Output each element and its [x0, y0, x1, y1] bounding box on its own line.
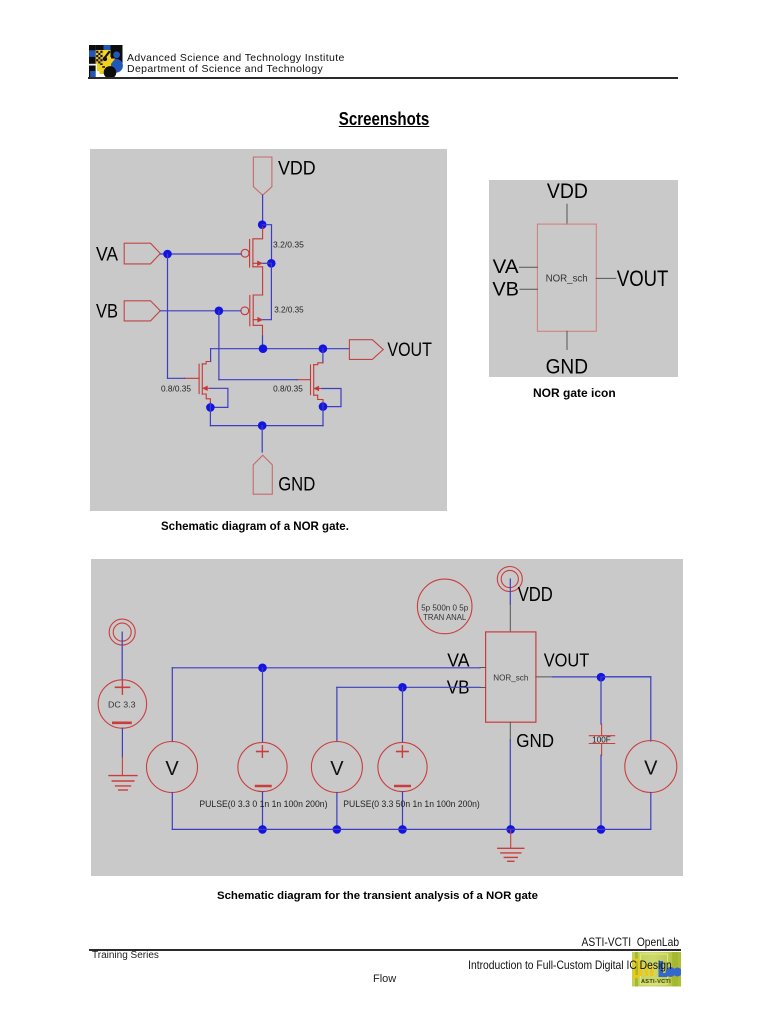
ground symbol left	[109, 757, 137, 790]
wire VDD to M1 drain	[262, 195, 264, 225]
wire VA down	[167, 254, 169, 378]
wire VB down	[218, 311, 220, 380]
svg-text:VOUT: VOUT	[387, 340, 432, 361]
svg-text:VA: VA	[96, 245, 118, 266]
global VDD symbol top (double circle)	[497, 567, 522, 592]
svg-text:VB: VB	[96, 302, 118, 323]
GND pin wire	[566, 331, 568, 349]
wire M4 bulk loop	[322, 389, 341, 407]
wire V1 to rail	[171, 793, 173, 830]
node V2 rail dot	[333, 825, 342, 834]
wire M3 bulk loop	[210, 388, 228, 407]
svg-text:GND: GND	[546, 355, 588, 378]
node out dot left	[259, 344, 268, 353]
pin stub VOUT	[536, 676, 553, 678]
meter V2	[311, 742, 362, 793]
svg-text:3.2/0.35: 3.2/0.35	[273, 240, 304, 250]
svg-text:ASTI-VCTI: ASTI-VCTI	[641, 979, 671, 985]
ground symbol bottom	[498, 829, 524, 861]
svg-text:5p 500n 0 5p: 5p 500n 0 5p	[421, 603, 468, 613]
svg-text:PULSE(0 3.3 50n 1n 1n 100n 200: PULSE(0 3.3 50n 1n 1n 100n 200n)	[343, 799, 480, 809]
svg-text:VOUT: VOUT	[544, 650, 590, 670]
transistor M2 pmos	[241, 295, 263, 336]
NOR_sch instance box	[486, 632, 536, 722]
node pulse1 rail dot	[258, 825, 267, 834]
svg-text:0.8/0.35: 0.8/0.35	[161, 384, 191, 394]
svg-text:V: V	[330, 758, 344, 780]
wire to GND pin	[261, 426, 263, 452]
svg-text:VDD: VDD	[278, 159, 316, 180]
wire VOUT net	[553, 676, 651, 678]
svg-text:GND: GND	[278, 475, 315, 496]
wire M3 gate	[168, 377, 185, 379]
node VOUT-cap dot	[597, 673, 606, 682]
VOUT pin	[349, 340, 383, 360]
wire V2 to rail	[336, 793, 338, 830]
pin stub GND	[509, 722, 511, 740]
VB pin	[124, 301, 160, 321]
source V0 DC 3.3	[98, 680, 146, 728]
svg-text:3.2/0.35: 3.2/0.35	[274, 305, 304, 315]
node M3 source dot	[206, 403, 215, 412]
caption 3	[217, 890, 538, 902]
wire vdd to box	[509, 579, 511, 604]
global VDD symbol left (double circle)	[109, 619, 135, 645]
VDD pin wire	[566, 204, 568, 224]
wire M3 drain	[210, 349, 212, 362]
node VB-pulse2 dot	[398, 683, 407, 692]
svg-text:NOR_sch: NOR_sch	[493, 673, 528, 683]
svg-text:VOUT: VOUT	[617, 266, 669, 291]
transistor M4 nmos	[297, 363, 323, 404]
GND pin	[253, 455, 272, 494]
wire V4 branch	[601, 677, 651, 741]
svg-text:V: V	[644, 757, 658, 779]
transistor M3 nmos	[185, 362, 211, 403]
capacitor C0 100F	[589, 724, 614, 755]
wire bulk stub	[263, 262, 272, 264]
node VA-pulse1 dot	[258, 664, 267, 673]
wire cap to rail	[600, 755, 602, 829]
svg-text:PULSE(0 3.3 0 1n 1n 100n 200n): PULSE(0 3.3 0 1n 1n 100n 200n)	[199, 799, 327, 809]
node VB dot	[215, 307, 224, 316]
wire M3 source down	[209, 403, 211, 426]
node gnd rail dot	[506, 825, 515, 834]
wire VA net	[172, 667, 480, 669]
svg-text:TRAN ANAL: TRAN ANAL	[423, 612, 466, 622]
VDD pin	[253, 157, 272, 195]
svg-text:VDD: VDD	[547, 180, 588, 203]
wire pulse2 to rail	[402, 792, 404, 830]
NOR_sch icon box	[537, 224, 596, 331]
svg-text:V: V	[165, 758, 179, 780]
svg-text:GND: GND	[516, 731, 554, 751]
meter V1	[147, 742, 198, 793]
pin stub vdd	[509, 604, 511, 632]
node cap rail dot	[597, 825, 606, 834]
node VA dot	[163, 250, 172, 259]
wire V1 branch	[171, 668, 173, 742]
VOUT pin wire	[596, 277, 616, 279]
node out dot right	[319, 344, 328, 353]
wire pulse2 branch	[402, 687, 404, 742]
wire bulk riser	[262, 225, 271, 264]
ASTI-DOST logo	[89, 45, 123, 78]
source V2 pulse1	[238, 742, 287, 791]
wire M2 bulk	[263, 263, 272, 319]
node bulk dot	[267, 259, 276, 268]
wire cap branch top	[600, 677, 602, 724]
svg-text:0.8/0.35: 0.8/0.35	[273, 384, 303, 394]
wire V2 branch	[336, 687, 338, 741]
wire M4 gate	[219, 379, 297, 381]
wire M4 drain	[322, 349, 324, 363]
wire output rail	[211, 348, 350, 350]
pin stub VB	[480, 687, 486, 689]
source V3 pulse2	[378, 742, 427, 791]
wire GND to rail	[509, 740, 511, 829]
wire vddsym to V0	[121, 632, 123, 680]
OpenLab ASTI-VCTI logo	[632, 952, 681, 987]
wire pulse1 to rail	[262, 792, 264, 830]
wire pulse1 branch	[262, 668, 264, 743]
VB pin wire	[520, 288, 537, 290]
wire M4 source down	[322, 404, 324, 426]
svg-text:100F: 100F	[592, 736, 611, 745]
svg-text:VDD: VDD	[518, 584, 553, 606]
caption 2	[533, 386, 616, 400]
caption 1	[161, 521, 349, 533]
VA pin	[124, 243, 160, 264]
wire VB net	[337, 686, 480, 688]
pin stub VA	[480, 667, 486, 669]
wire bottom rail	[172, 828, 651, 830]
VA pin wire	[520, 266, 538, 268]
svg-text:DC 3.3: DC 3.3	[108, 700, 136, 710]
wire VA to M1 gate	[160, 253, 241, 255]
wire V0 to ground	[121, 728, 123, 757]
svg-text:VA: VA	[493, 257, 519, 278]
wire ground rail	[210, 425, 323, 427]
analysis note circle TRAN ANAL	[417, 579, 472, 634]
node gnd dot	[258, 421, 267, 430]
svg-text:VB: VB	[492, 280, 519, 301]
svg-text:NOR_sch: NOR_sch	[546, 274, 588, 285]
node VDD junction dot	[258, 220, 267, 229]
node M4 source dot	[319, 402, 328, 411]
wire M2 source down	[262, 336, 264, 349]
transistor M1 pmos	[241, 227, 263, 295]
node pulse2 rail dot	[398, 825, 407, 834]
wire VB to M2 gate	[160, 310, 240, 312]
wire V4 to rail	[650, 793, 652, 830]
meter V4	[625, 741, 677, 793]
